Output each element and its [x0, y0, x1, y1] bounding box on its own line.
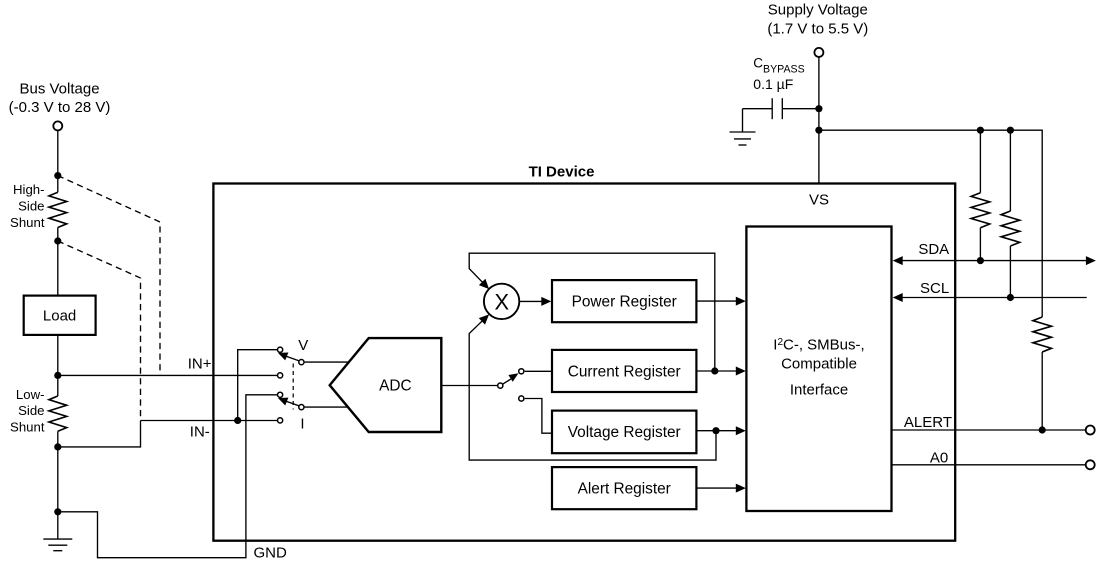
- svg-text:Shunt: Shunt: [10, 420, 45, 435]
- svg-text:IN+: IN+: [188, 356, 212, 373]
- svg-text:VS: VS: [809, 191, 829, 208]
- load block: [24, 296, 96, 335]
- svg-text:Side: Side: [18, 403, 44, 418]
- label C_BYPASS value: [753, 56, 804, 92]
- svg-text:ADC: ADC: [379, 378, 412, 395]
- alert register block: [552, 467, 696, 509]
- svg-text:SDA: SDA: [918, 241, 949, 258]
- dashed sense line from high-side shunt bottom to IN-: [58, 241, 141, 421]
- wire bus-voltage terminal to high-side shunt: [57, 131, 59, 176]
- register select switch contact lower: [519, 396, 524, 401]
- voltage register block: [552, 411, 696, 454]
- svg-text:Shunt: Shunt: [10, 215, 45, 230]
- svg-text:TI Device: TI Device: [529, 164, 595, 181]
- label TI Device: [529, 164, 595, 181]
- svg-text:Alert Register: Alert Register: [578, 481, 671, 498]
- switch input contact c3 (GND): [278, 392, 283, 397]
- switch arm I with arrow: [278, 398, 299, 406]
- svg-text:SCL: SCL: [920, 280, 949, 297]
- svg-text:I: I: [300, 415, 304, 432]
- svg-text:V: V: [298, 337, 308, 354]
- label High-Side Shunt: [10, 182, 45, 230]
- feedback wire current register to multiplier (top): [469, 253, 715, 371]
- register select switch contact upper: [519, 369, 524, 374]
- current register block: [552, 350, 696, 392]
- wire I pole to ADC: [305, 406, 349, 408]
- ADC block: [330, 338, 442, 432]
- wire register-switch lower contact to Voltage Register: [525, 399, 552, 434]
- label I (switch position): [300, 415, 304, 432]
- node junction: rail / SDA pull-up: [977, 127, 984, 134]
- label VS pin: [809, 191, 829, 208]
- label GND: [254, 545, 288, 562]
- resistor: Low-Side Shunt: [49, 375, 67, 447]
- svg-text:Bus Voltage: Bus Voltage: [19, 81, 99, 98]
- SDA bidirectional line: [893, 256, 1096, 265]
- terminal: bus voltage input: [53, 121, 62, 130]
- svg-text:Low-: Low-: [16, 387, 45, 402]
- SCL line: [893, 293, 1087, 302]
- node junction: supply / pull-up rail: [815, 127, 822, 134]
- node junction: bus voltage / high-side shunt top: [54, 172, 61, 179]
- wire low-side shunt to ground: [57, 447, 59, 512]
- switch input contact c2 (IN+): [278, 373, 283, 378]
- wire IN- line into device: [141, 420, 278, 422]
- node: Bus Voltage supply label: [9, 81, 111, 117]
- svg-text:X: X: [495, 290, 510, 315]
- resistor: High-Side Shunt: [49, 176, 67, 241]
- svg-text:(-0.3 V to 28 V): (-0.3 V to 28 V): [9, 99, 111, 116]
- wire load to IN+ node: [57, 335, 59, 376]
- svg-text:Supply Voltage: Supply Voltage: [768, 2, 868, 19]
- label Low-Side Shunt: [10, 387, 45, 435]
- node junction: SCL / pull-up: [1007, 294, 1014, 301]
- svg-text:Interface: Interface: [790, 382, 848, 399]
- TI Device block outline: [213, 184, 955, 541]
- capacitor C_BYPASS: [743, 98, 816, 119]
- dashed sense line from high-side shunt top to IN+: [58, 176, 160, 376]
- node junction: ALERT / pull-up: [1039, 426, 1046, 433]
- terminal: supply voltage input: [814, 48, 823, 57]
- svg-text:GND: GND: [254, 545, 288, 562]
- wire IN+ line into device: [58, 374, 277, 376]
- ground symbol (bypass cap): [730, 132, 756, 145]
- node junction: rail / SCL pull-up: [1007, 127, 1014, 134]
- terminal: ALERT output: [1086, 426, 1095, 435]
- multiplier X block: [484, 284, 519, 319]
- label IN-: [190, 424, 210, 441]
- node junction: current register output: [711, 367, 718, 374]
- I2C SMBus interface block: [746, 227, 891, 512]
- switch arm V with arrow: [278, 353, 299, 361]
- wire supply to VS pin: [818, 57, 820, 183]
- svg-text:ALERT: ALERT: [904, 414, 952, 431]
- node junction: voltage register output: [712, 427, 719, 434]
- node junction: SDA / pull-up: [977, 257, 984, 264]
- wire high-side shunt to load: [57, 241, 59, 296]
- arrow power register to interface: [696, 297, 745, 306]
- label ALERT: [904, 414, 952, 431]
- ground symbol (left): [43, 539, 72, 551]
- arrow alert register to interface: [696, 484, 745, 493]
- resistor: ALERT pull-up: [1033, 317, 1052, 430]
- ALERT line: [892, 429, 1086, 431]
- terminal: A0 address pin: [1086, 460, 1095, 469]
- label IN+: [188, 356, 212, 373]
- feedback wire voltage register to multiplier (bottom): [469, 314, 716, 460]
- wire GND return from ground node to device switch: [58, 395, 277, 558]
- svg-text:High-: High-: [13, 182, 45, 197]
- svg-text:A0: A0: [930, 450, 948, 467]
- svg-text:IN-: IN-: [190, 424, 210, 441]
- svg-text:(1.7 V to 5.5 V): (1.7 V to 5.5 V): [767, 20, 868, 37]
- resistor: SCL pull-up: [1001, 130, 1020, 297]
- wire ground node to ground symbol: [57, 512, 59, 539]
- power register block: [552, 280, 696, 322]
- node junction: high-side shunt bottom: [54, 237, 61, 244]
- resistor: SDA pull-up: [971, 130, 990, 260]
- label SDA: [918, 241, 949, 258]
- switch input contact c4 (IN-): [278, 418, 283, 423]
- label SCL: [920, 280, 949, 297]
- wire switch V-side contact to IN- junction: [238, 350, 278, 421]
- arrow voltage register to interface: [696, 426, 745, 435]
- node junction: IN+ / load bottom: [54, 372, 61, 379]
- arrow current register to interface: [696, 367, 745, 376]
- svg-text:Voltage Register: Voltage Register: [568, 424, 681, 441]
- svg-text:Load: Load: [43, 308, 76, 325]
- register select switch pole: [498, 383, 503, 388]
- wire cap to ground: [742, 109, 744, 132]
- A0 line: [892, 464, 1086, 466]
- node junction: low-side shunt bottom: [54, 443, 61, 450]
- svg-text:0.1 µF: 0.1 µF: [753, 76, 793, 92]
- node junction: supply / bypass cap: [815, 105, 822, 112]
- svg-text:Current Register: Current Register: [568, 363, 681, 380]
- node: Supply Voltage label: [767, 2, 868, 38]
- label V (switch position): [298, 337, 308, 354]
- svg-text:Compatible: Compatible: [781, 355, 857, 372]
- node junction: ground node: [54, 508, 61, 515]
- svg-text:Side: Side: [18, 199, 44, 214]
- wire ADC output to register switch: [441, 385, 497, 387]
- register select switch arm with arrow: [503, 373, 519, 384]
- wire low-side shunt bottom up to IN- line: [58, 421, 141, 447]
- node junction: IN- tap: [234, 417, 241, 424]
- label A0: [930, 450, 948, 467]
- switch input contact c1: [278, 347, 283, 352]
- svg-text:I2C-, SMBus-,: I2C-, SMBus-,: [773, 337, 864, 354]
- wire pull-up rail: [819, 130, 1042, 317]
- switch pole V: [299, 360, 304, 365]
- svg-text:Power Register: Power Register: [572, 294, 677, 311]
- arrow multiplier to Power Register: [519, 297, 551, 306]
- wire V pole to ADC: [305, 361, 349, 363]
- wire register-switch upper contact to Current Register: [525, 370, 552, 372]
- dashed gang link between switch arms: [292, 364, 294, 410]
- switch pole I: [299, 405, 304, 410]
